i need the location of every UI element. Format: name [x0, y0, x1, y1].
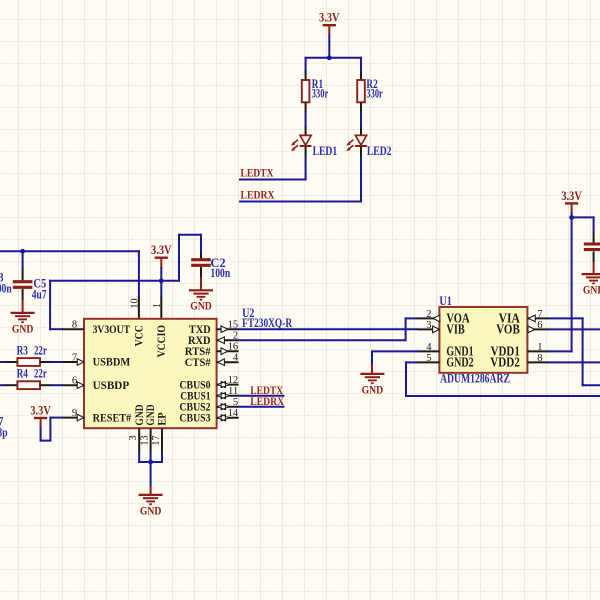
svg-text:9: 9 — [72, 408, 77, 419]
svg-text:GND: GND — [190, 299, 212, 313]
svg-text:12: 12 — [228, 375, 239, 386]
svg-text:16: 16 — [228, 342, 239, 353]
svg-text:R4: R4 — [17, 367, 28, 381]
svg-text:17: 17 — [151, 435, 162, 445]
svg-text:3.3V: 3.3V — [561, 189, 582, 203]
svg-text:VDD2: VDD2 — [490, 355, 520, 370]
svg-text:2: 2 — [233, 331, 238, 342]
svg-text:2: 2 — [426, 309, 431, 320]
svg-text:100n: 100n — [0, 282, 12, 296]
svg-text:10: 10 — [129, 298, 140, 308]
svg-text:3V3OUT: 3V3OUT — [93, 324, 131, 336]
svg-text:5: 5 — [233, 397, 238, 408]
svg-text:LEDTX: LEDTX — [241, 167, 274, 180]
svg-text:13: 13 — [140, 435, 151, 445]
svg-text:ADUM1286ARZ: ADUM1286ARZ — [440, 372, 510, 386]
svg-text:15: 15 — [228, 320, 239, 331]
svg-text:CTS#: CTS# — [185, 357, 211, 369]
svg-text:3.3V: 3.3V — [319, 11, 340, 25]
svg-text:VOB: VOB — [496, 322, 520, 337]
svg-text:3.3V: 3.3V — [151, 243, 172, 257]
svg-text:VCCIO: VCCIO — [156, 325, 168, 358]
svg-text:GND: GND — [145, 404, 157, 425]
svg-text:6: 6 — [72, 376, 77, 387]
svg-text:4: 4 — [233, 353, 239, 364]
svg-text:LED1: LED1 — [313, 144, 338, 158]
svg-text:22r: 22r — [34, 344, 47, 358]
svg-text:100n: 100n — [210, 266, 230, 280]
svg-text:VIB: VIB — [446, 322, 465, 337]
svg-text:3.3V: 3.3V — [30, 403, 51, 417]
svg-text:22r: 22r — [34, 367, 47, 381]
svg-text:5: 5 — [426, 353, 431, 364]
svg-text:LEDRX: LEDRX — [241, 189, 275, 202]
svg-text:4: 4 — [426, 342, 432, 353]
svg-text:1: 1 — [537, 342, 542, 353]
svg-text:14: 14 — [228, 408, 239, 419]
svg-text:330r: 330r — [366, 86, 383, 100]
svg-text:CBUS3: CBUS3 — [179, 413, 210, 425]
svg-text:8: 8 — [537, 353, 542, 364]
svg-text:GND: GND — [12, 321, 34, 335]
svg-text:LEDRX: LEDRX — [250, 395, 284, 408]
svg-text:GND2: GND2 — [446, 355, 474, 370]
svg-text:LED2: LED2 — [367, 144, 392, 158]
svg-text:GND: GND — [140, 503, 162, 517]
svg-text:VCC: VCC — [134, 325, 146, 346]
svg-text:USBDP: USBDP — [93, 380, 130, 392]
svg-text:USBDM: USBDM — [93, 357, 131, 369]
svg-text:3: 3 — [128, 435, 139, 440]
svg-text:EP: EP — [156, 412, 168, 425]
svg-text:8p: 8p — [0, 426, 8, 440]
svg-text:330r: 330r — [312, 86, 329, 100]
svg-text:3: 3 — [426, 320, 431, 331]
svg-text:GND: GND — [583, 283, 600, 297]
svg-text:U1: U1 — [439, 294, 451, 308]
svg-text:8: 8 — [72, 320, 77, 331]
svg-text:4u7: 4u7 — [32, 288, 47, 302]
svg-text:11: 11 — [228, 386, 238, 397]
svg-text:1: 1 — [152, 303, 163, 308]
svg-text:R3: R3 — [17, 344, 28, 358]
svg-text:6: 6 — [537, 320, 542, 331]
svg-text:7: 7 — [72, 352, 77, 363]
svg-text:FT230XQ-R: FT230XQ-R — [242, 316, 293, 330]
svg-text:7: 7 — [537, 309, 542, 320]
svg-text:RESET#: RESET# — [93, 412, 132, 424]
svg-text:GND: GND — [362, 382, 384, 396]
svg-text:GND: GND — [134, 404, 146, 425]
